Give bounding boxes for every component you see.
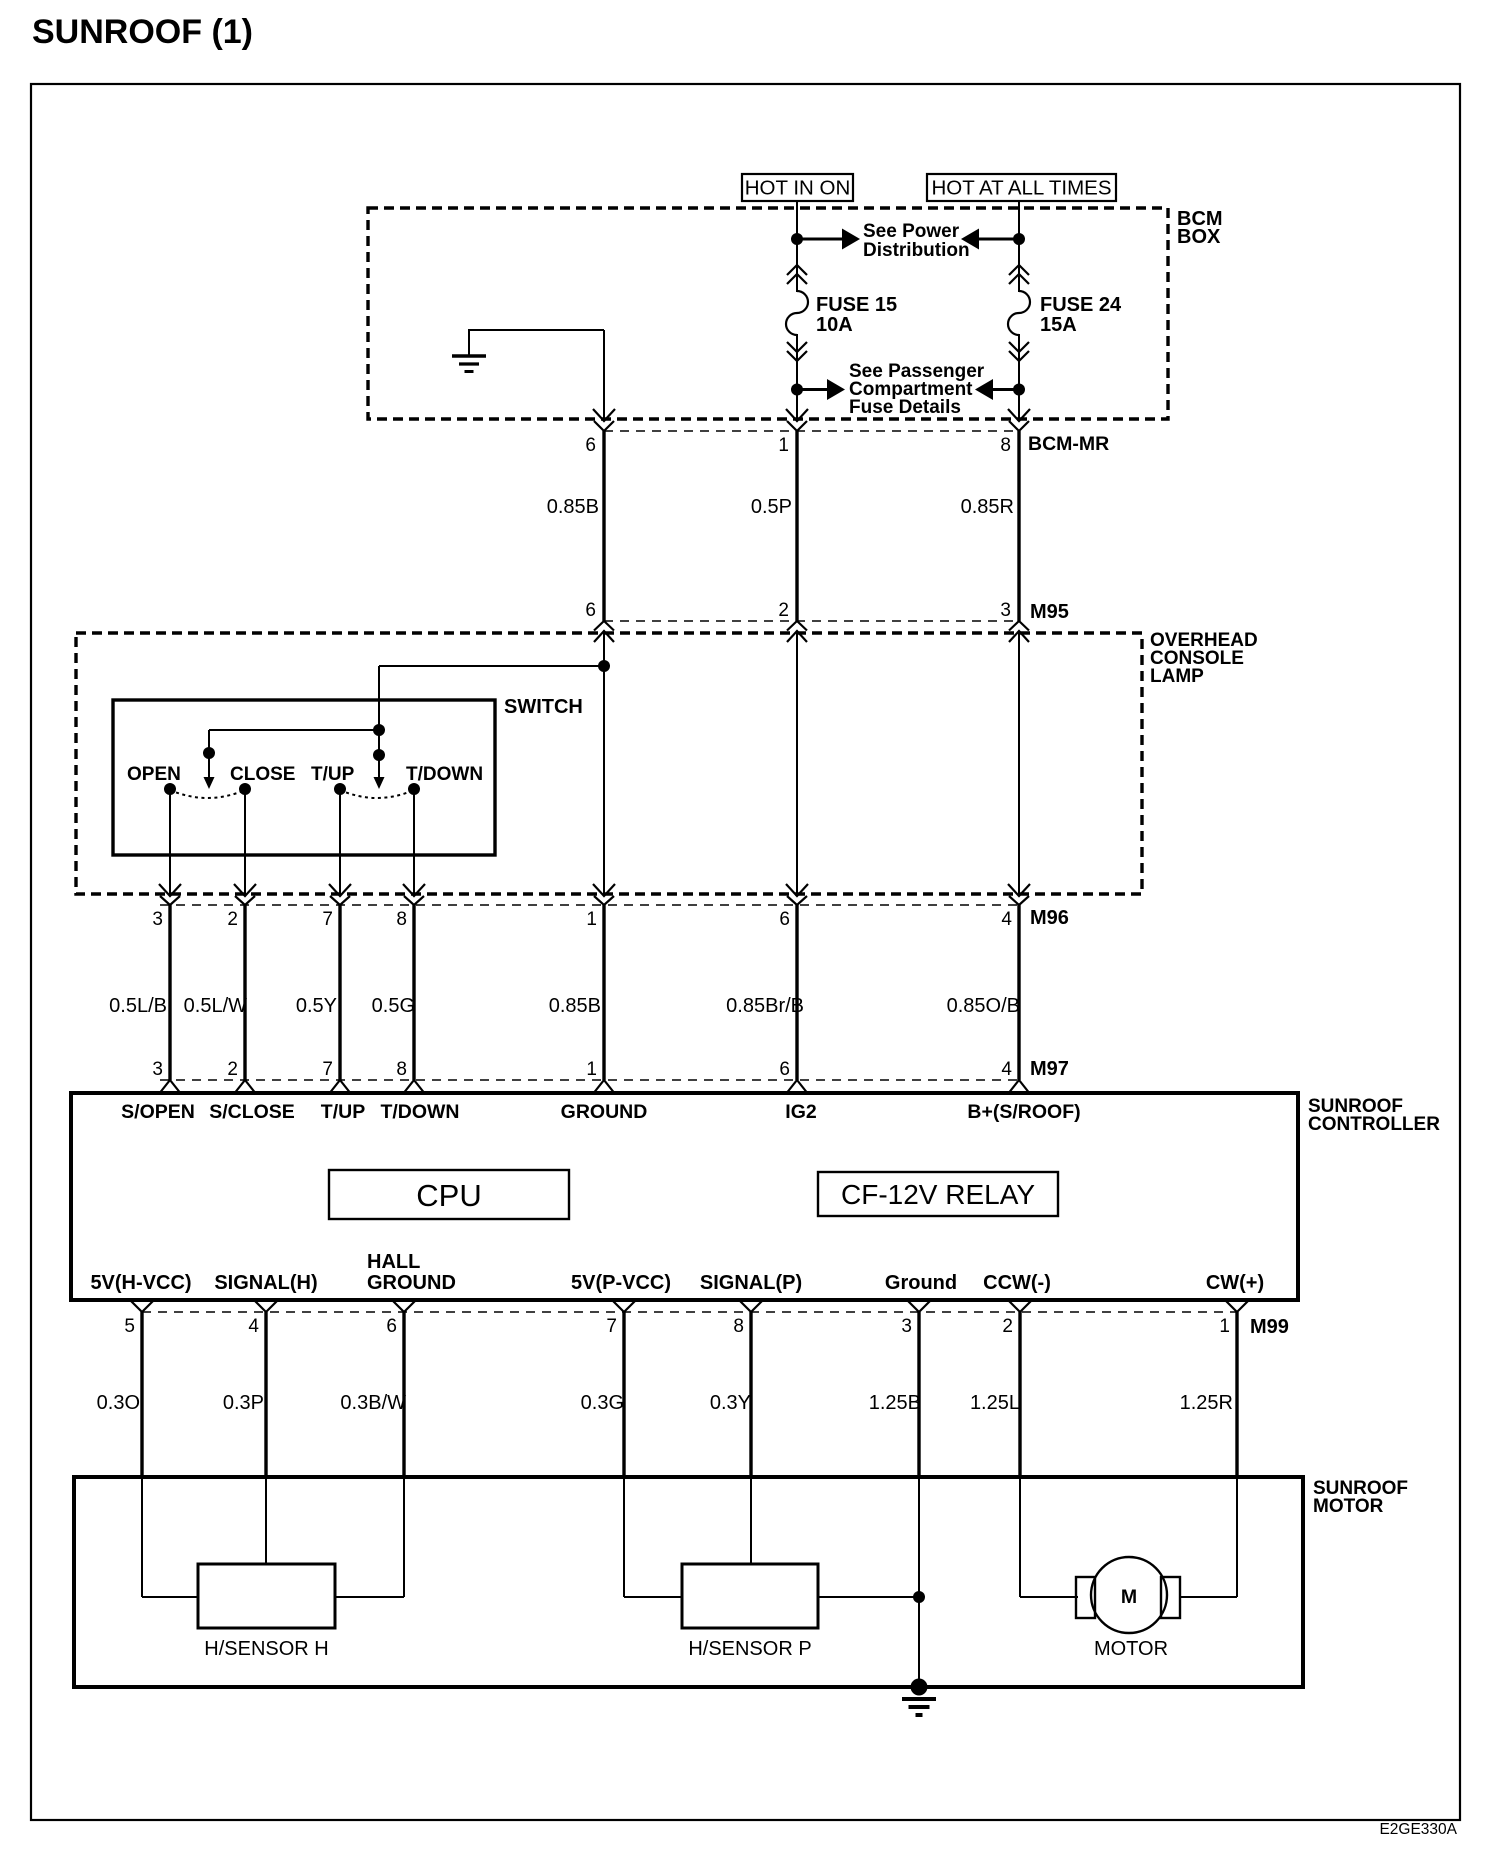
svg-text:1: 1 — [778, 435, 789, 456]
svg-text:2: 2 — [227, 909, 238, 930]
svg-text:8: 8 — [1000, 435, 1011, 456]
svg-text:6: 6 — [779, 1059, 790, 1080]
svg-text:3: 3 — [152, 909, 163, 930]
svg-text:0.5P: 0.5P — [751, 496, 792, 518]
svg-text:3: 3 — [901, 1316, 912, 1337]
svg-text:Ground: Ground — [885, 1272, 957, 1294]
svg-text:CONTROLLER: CONTROLLER — [1308, 1114, 1440, 1135]
svg-text:6: 6 — [585, 600, 596, 621]
svg-text:0.85Br/B: 0.85Br/B — [726, 995, 804, 1017]
svg-text:SIGNAL(P): SIGNAL(P) — [700, 1272, 802, 1294]
svg-text:0.85R: 0.85R — [961, 496, 1014, 518]
svg-text:8: 8 — [396, 909, 407, 930]
svg-text:CPU: CPU — [416, 1178, 481, 1213]
svg-text:FUSE 24: FUSE 24 — [1040, 294, 1122, 316]
svg-text:CW(+): CW(+) — [1206, 1272, 1264, 1294]
svg-text:GROUND: GROUND — [561, 1101, 648, 1123]
svg-text:SIGNAL(H): SIGNAL(H) — [214, 1272, 317, 1294]
svg-text:10A: 10A — [816, 314, 853, 336]
svg-text:See Power: See Power — [863, 221, 960, 242]
svg-text:5V(H-VCC): 5V(H-VCC) — [90, 1272, 191, 1294]
svg-text:M96: M96 — [1030, 907, 1069, 929]
svg-text:CF-12V RELAY: CF-12V RELAY — [841, 1179, 1035, 1210]
svg-text:M97: M97 — [1030, 1058, 1069, 1080]
svg-text:T/UP: T/UP — [311, 764, 355, 785]
svg-text:S/CLOSE: S/CLOSE — [209, 1101, 295, 1123]
svg-text:6: 6 — [585, 435, 596, 456]
svg-text:8: 8 — [396, 1059, 407, 1080]
svg-text:SUNROOF (1): SUNROOF (1) — [32, 13, 253, 51]
svg-text:MOTOR: MOTOR — [1094, 1638, 1168, 1660]
svg-text:0.3Y: 0.3Y — [710, 1392, 751, 1414]
svg-text:Distribution: Distribution — [863, 240, 970, 261]
svg-text:3: 3 — [152, 1059, 163, 1080]
svg-text:CCW(-): CCW(-) — [983, 1272, 1051, 1294]
svg-text:Fuse Details: Fuse Details — [849, 397, 961, 418]
svg-text:M95: M95 — [1030, 601, 1069, 623]
svg-text:SWITCH: SWITCH — [504, 696, 583, 718]
svg-text:8: 8 — [733, 1316, 744, 1337]
svg-text:2: 2 — [227, 1059, 238, 1080]
svg-text:4: 4 — [1001, 909, 1012, 930]
svg-text:6: 6 — [779, 909, 790, 930]
svg-text:1: 1 — [586, 1059, 597, 1080]
svg-text:H/SENSOR H: H/SENSOR H — [204, 1638, 328, 1660]
svg-text:0.5L/B: 0.5L/B — [109, 995, 167, 1017]
svg-text:1.25R: 1.25R — [1180, 1392, 1233, 1414]
svg-text:0.3B/W: 0.3B/W — [340, 1392, 406, 1414]
svg-text:IG2: IG2 — [785, 1101, 817, 1123]
svg-text:CLOSE: CLOSE — [230, 764, 295, 785]
svg-text:T/DOWN: T/DOWN — [406, 764, 483, 785]
svg-text:4: 4 — [1001, 1059, 1012, 1080]
svg-text:0.85B: 0.85B — [549, 995, 601, 1017]
svg-text:0.5L/W: 0.5L/W — [184, 995, 247, 1017]
svg-text:0.85B: 0.85B — [547, 496, 599, 518]
svg-text:GROUND: GROUND — [367, 1272, 456, 1294]
svg-text:HOT AT ALL TIMES: HOT AT ALL TIMES — [931, 177, 1111, 200]
svg-text:B+(S/ROOF): B+(S/ROOF) — [967, 1101, 1080, 1123]
svg-text:7: 7 — [322, 909, 333, 930]
svg-text:0.5G: 0.5G — [372, 995, 415, 1017]
svg-text:HOT IN ON: HOT IN ON — [745, 177, 851, 200]
svg-text:BCM-MR: BCM-MR — [1028, 433, 1109, 455]
svg-text:S/OPEN: S/OPEN — [121, 1101, 195, 1123]
svg-text:1.25L: 1.25L — [970, 1392, 1020, 1414]
svg-text:3: 3 — [1000, 600, 1011, 621]
svg-text:1: 1 — [586, 909, 597, 930]
svg-text:0.85O/B: 0.85O/B — [947, 995, 1020, 1017]
svg-text:T/DOWN: T/DOWN — [380, 1101, 459, 1123]
svg-text:7: 7 — [606, 1316, 617, 1337]
svg-text:1: 1 — [1219, 1316, 1230, 1337]
svg-text:0.3P: 0.3P — [223, 1392, 264, 1414]
svg-text:15A: 15A — [1040, 314, 1077, 336]
svg-text:MOTOR: MOTOR — [1313, 1496, 1384, 1517]
svg-text:0.5Y: 0.5Y — [296, 995, 337, 1017]
svg-text:LAMP: LAMP — [1150, 666, 1204, 687]
svg-text:0.3G: 0.3G — [581, 1392, 624, 1414]
svg-text:H/SENSOR P: H/SENSOR P — [688, 1638, 811, 1660]
svg-text:OPEN: OPEN — [127, 764, 181, 785]
svg-text:M: M — [1121, 1586, 1137, 1608]
svg-text:5: 5 — [124, 1316, 135, 1337]
svg-text:1.25B: 1.25B — [869, 1392, 921, 1414]
svg-text:2: 2 — [1002, 1316, 1013, 1337]
svg-text:FUSE 15: FUSE 15 — [816, 294, 897, 316]
svg-text:2: 2 — [778, 600, 789, 621]
svg-text:4: 4 — [248, 1316, 259, 1337]
svg-text:6: 6 — [386, 1316, 397, 1337]
svg-text:T/UP: T/UP — [321, 1101, 365, 1123]
svg-text:HALL: HALL — [367, 1251, 420, 1273]
svg-text:M99: M99 — [1250, 1316, 1289, 1338]
svg-text:5V(P-VCC): 5V(P-VCC) — [571, 1272, 671, 1294]
svg-text:E2GE330A: E2GE330A — [1379, 1821, 1457, 1838]
svg-text:BOX: BOX — [1177, 226, 1221, 248]
svg-text:0.3O: 0.3O — [97, 1392, 140, 1414]
svg-text:7: 7 — [322, 1059, 333, 1080]
